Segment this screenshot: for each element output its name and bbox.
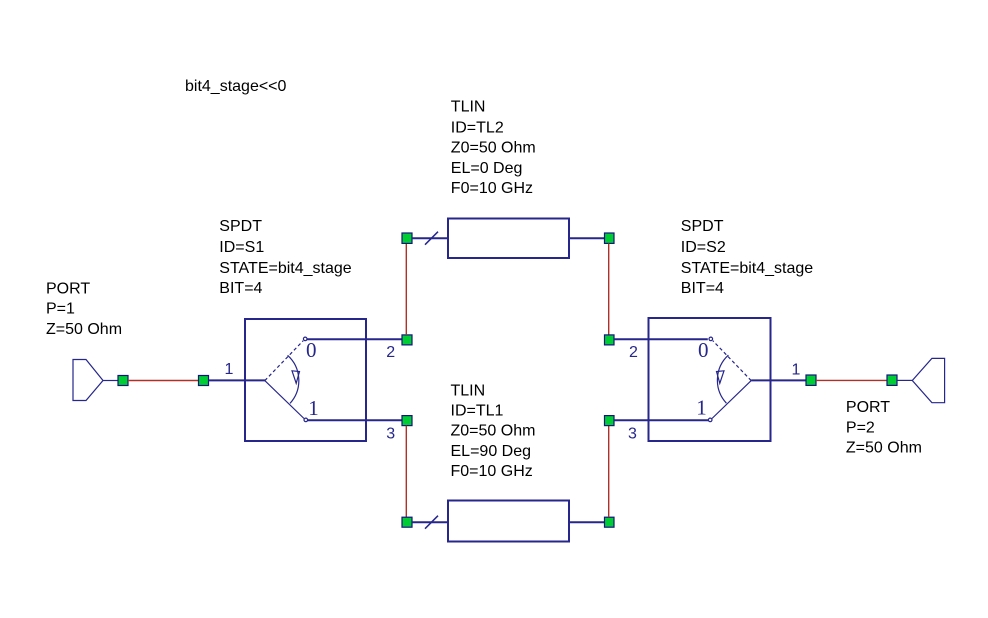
svg-text:TLIN: TLIN — [451, 383, 486, 400]
svg-text:ID=S1: ID=S1 — [219, 239, 264, 256]
svg-text:bit4_stage<<0: bit4_stage<<0 — [185, 78, 287, 95]
S2 switch arm to throw 0 (dashed) — [713, 341, 751, 381]
svg-text:SPDT: SPDT — [681, 218, 724, 235]
port P1 symbol — [73, 360, 103, 401]
TL1 pin 2 lead — [569, 521, 605, 523]
S2 pin 3 node — [605, 416, 615, 426]
svg-text:STATE=bit4_stage: STATE=bit4_stage — [219, 260, 351, 277]
TL1 pin 2 node — [605, 517, 615, 527]
S1 switch arm to throw 0 (dashed) — [265, 341, 303, 381]
svg-text:F0=10 GHz: F0=10 GHz — [451, 463, 533, 480]
TL2 pin 1 node — [402, 233, 412, 243]
svg-text:1: 1 — [225, 361, 234, 378]
port P1 terminal node — [118, 376, 128, 386]
svg-text:Z0=50 Ohm: Z0=50 Ohm — [451, 423, 536, 440]
S2 contact 1 — [708, 418, 712, 422]
S1 actuation arc — [288, 355, 299, 403]
TLIN TL1 body — [448, 501, 569, 542]
S2 contact 0 — [709, 337, 713, 341]
TL2 length slash — [425, 232, 438, 245]
svg-text:1: 1 — [696, 395, 707, 419]
wire TL1 to S2 pin 3 (red) — [608, 426, 610, 518]
svg-text:P=1: P=1 — [46, 301, 75, 318]
TL2 pin 1 lead — [412, 237, 448, 239]
wire TL2 to S2 pin 2 (red) — [608, 243, 610, 335]
S1 pin 2 node — [402, 335, 412, 345]
svg-text:2: 2 — [629, 344, 638, 361]
wire P1 to junction (red) — [128, 380, 199, 382]
wire S2 pin 1 to junction — [751, 379, 806, 381]
svg-text:0: 0 — [306, 338, 317, 362]
svg-text:Z=50 Ohm: Z=50 Ohm — [846, 440, 922, 457]
TL1 pin 1 node — [402, 517, 412, 527]
svg-text:ID=TL2: ID=TL2 — [451, 119, 504, 136]
wire P2 stub — [897, 379, 912, 381]
SPDT S1 body — [245, 319, 366, 441]
S1 contact 0 — [303, 337, 307, 341]
wire junction to P2 (red) — [816, 379, 887, 381]
svg-text:P=2: P=2 — [846, 420, 875, 437]
svg-text:1: 1 — [308, 396, 319, 420]
svg-text:PORT: PORT — [46, 280, 90, 297]
svg-text:EL=90 Deg: EL=90 Deg — [451, 443, 532, 460]
S2 pin 3 lead — [614, 419, 709, 421]
wire junction to S1 pin 1 — [209, 379, 266, 381]
TL1 length slash — [425, 516, 438, 529]
wire S1 pin 3 to TL1 (red) — [405, 426, 407, 518]
svg-text:BIT=4: BIT=4 — [219, 280, 262, 297]
S2 actuation arrow — [717, 371, 725, 384]
svg-text:3: 3 — [628, 425, 637, 442]
svg-text:2: 2 — [386, 344, 395, 361]
S2 pin 2 lead — [614, 338, 708, 340]
TL1 pin 1 lead — [412, 521, 448, 523]
svg-text:Z0=50 Ohm: Z0=50 Ohm — [451, 139, 536, 156]
SPDT S2 body — [649, 318, 771, 441]
svg-text:1: 1 — [792, 362, 801, 379]
node junction P1-S1 — [199, 376, 209, 386]
S2 actuation arc — [717, 355, 728, 403]
svg-text:EL=0 Deg: EL=0 Deg — [451, 160, 523, 177]
S1 pin 2 lead — [307, 338, 402, 340]
wire S1 pin 2 to TL2 (red) — [405, 243, 407, 335]
svg-text:SPDT: SPDT — [219, 218, 262, 235]
TL2 pin 2 node — [605, 233, 615, 243]
S2 switch arm to throw 1 — [712, 381, 751, 419]
svg-text:ID=TL1: ID=TL1 — [451, 403, 504, 420]
node junction S2-P2 — [806, 375, 816, 385]
port P2 symbol — [912, 358, 944, 402]
svg-text:3: 3 — [386, 425, 395, 442]
svg-text:BIT=4: BIT=4 — [681, 280, 724, 297]
S1 actuation arrow — [292, 371, 300, 384]
S2 pin 2 node — [605, 335, 615, 345]
port P2 terminal node — [887, 375, 897, 385]
svg-text:TLIN: TLIN — [451, 98, 486, 115]
S1 contact 1 — [304, 418, 308, 422]
svg-text:F0=10 GHz: F0=10 GHz — [451, 180, 533, 197]
svg-text:Z=50 Ohm: Z=50 Ohm — [46, 321, 122, 338]
svg-text:0: 0 — [698, 338, 709, 362]
svg-text:ID=S2: ID=S2 — [681, 239, 726, 256]
TLIN TL2 body — [448, 219, 569, 259]
wire P1 stub — [103, 380, 118, 382]
svg-text:STATE=bit4_stage: STATE=bit4_stage — [681, 260, 813, 277]
svg-text:PORT: PORT — [846, 399, 890, 416]
S1 pin 3 node — [402, 416, 412, 426]
S1 switch arm to throw 1 — [265, 381, 304, 419]
S1 pin 3 lead — [308, 419, 403, 421]
TL2 pin 2 lead — [569, 237, 605, 239]
